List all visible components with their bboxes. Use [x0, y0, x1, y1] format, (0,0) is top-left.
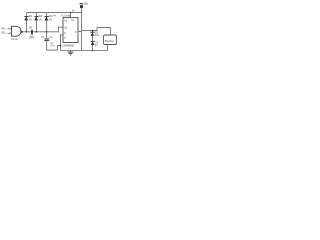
- svg-text:Vdd: Vdd: [66, 13, 71, 17]
- svg-text:IN2: IN2: [1, 31, 6, 35]
- svg-text:Buzzer: Buzzer: [105, 39, 114, 43]
- svg-text:D3: D3: [49, 14, 53, 18]
- svg-text:10u: 10u: [95, 33, 100, 37]
- svg-text:9V: 9V: [84, 2, 89, 6]
- svg-text:CD4060B: CD4060B: [62, 44, 74, 48]
- svg-text:R1: R1: [29, 25, 33, 29]
- svg-text:1N: 1N: [38, 17, 41, 21]
- svg-text:100n: 100n: [29, 36, 35, 39]
- svg-text:10M: 10M: [50, 44, 55, 47]
- svg-text:1N: 1N: [49, 17, 52, 21]
- svg-text:IC1a: IC1a: [12, 37, 18, 41]
- svg-text:D2: D2: [39, 14, 43, 18]
- svg-text:1N: 1N: [28, 17, 31, 21]
- svg-text:D1: D1: [29, 14, 33, 18]
- svg-text:C4: C4: [41, 35, 45, 39]
